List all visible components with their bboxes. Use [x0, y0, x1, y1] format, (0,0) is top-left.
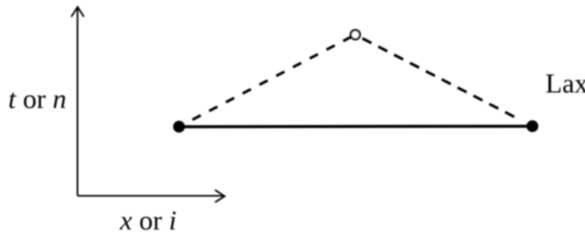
- svg-text:t or n: t or n: [8, 83, 66, 114]
- svg-text:Lax: Lax: [545, 68, 585, 99]
- svg-text:x or i: x or i: [119, 205, 177, 232]
